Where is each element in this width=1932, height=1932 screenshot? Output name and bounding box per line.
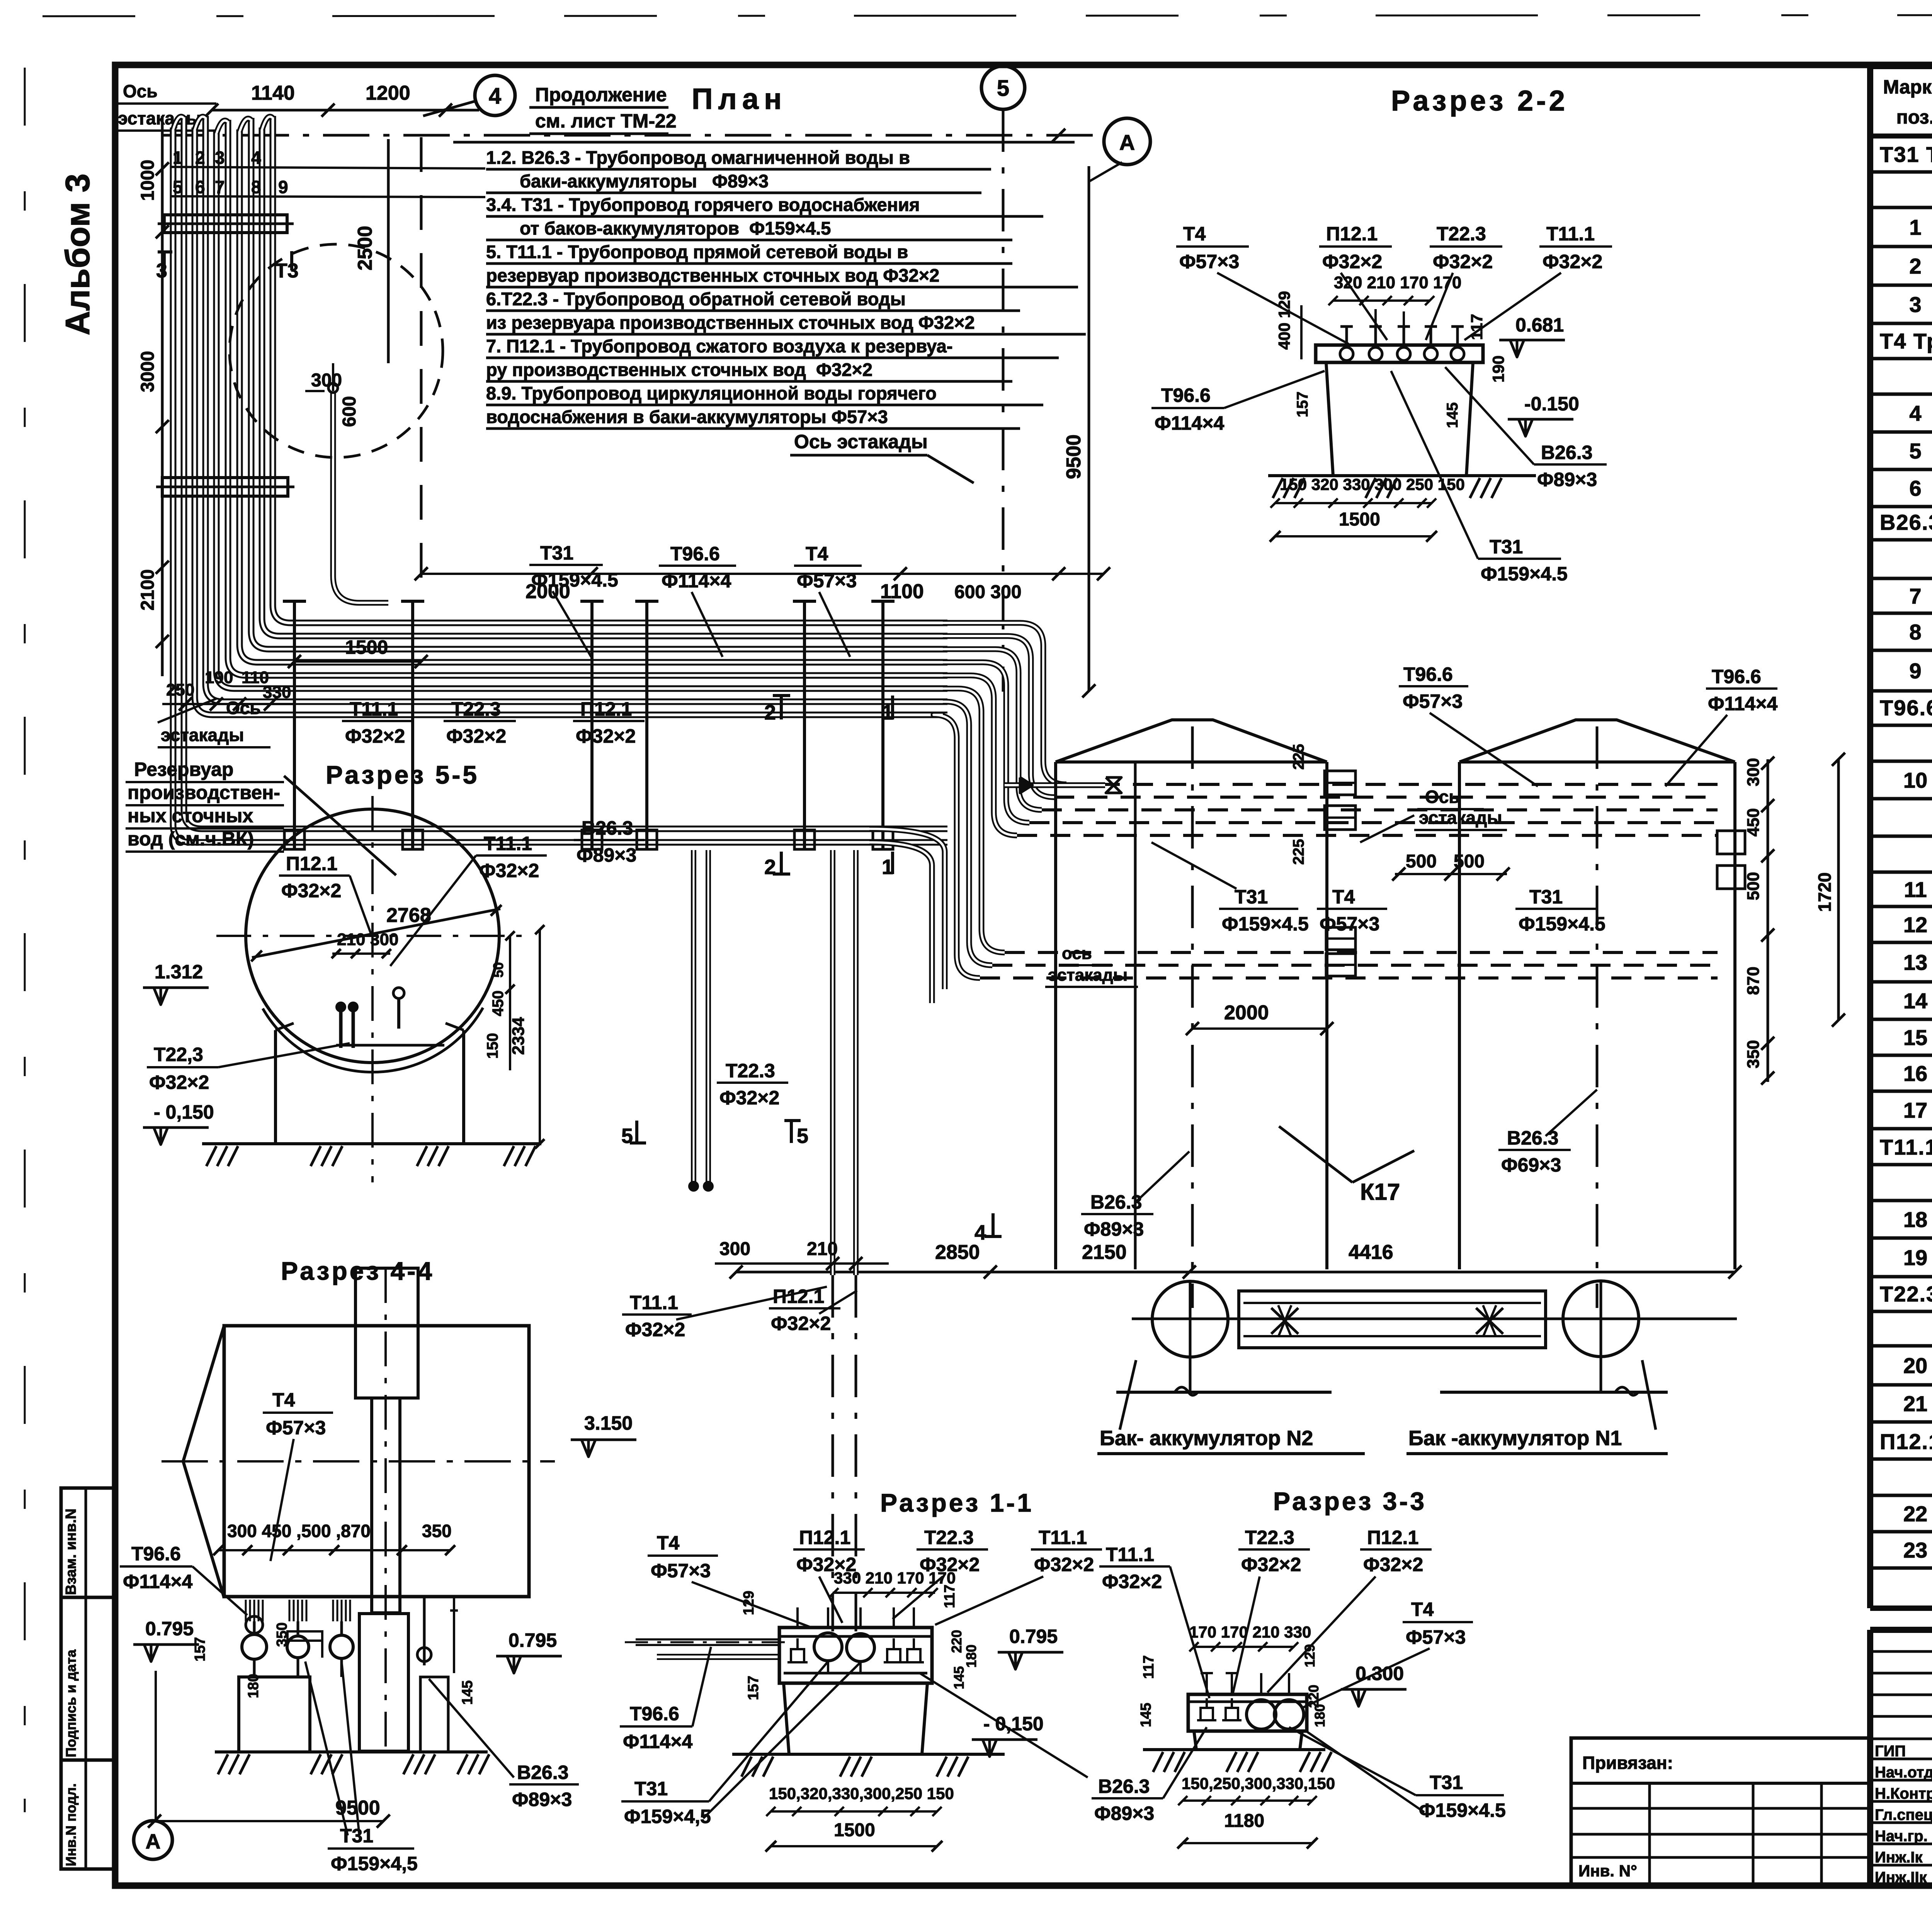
svg-text:2334: 2334 xyxy=(509,1017,528,1055)
svg-text:Т31: Т31 xyxy=(1430,1772,1463,1793)
svg-text:Ф32×2: Ф32×2 xyxy=(1322,251,1382,272)
svg-text:А: А xyxy=(146,1830,161,1853)
node circle 5 xyxy=(981,66,1025,109)
svg-text:225: 225 xyxy=(1290,839,1307,865)
svg-text:Т11.1: Т11.1 xyxy=(484,833,532,854)
svg-text:П12.1: П12.1 xyxy=(773,1286,824,1307)
svg-text:0.300: 0.300 xyxy=(1355,1663,1404,1684)
svg-text:Привязан:: Привязан: xyxy=(1582,1753,1673,1773)
section 5-5 right dims xyxy=(509,936,511,1070)
svg-text:ру производственных сточных во: ру производственных сточных вод Ф32×2 xyxy=(486,359,872,380)
svg-text:Ф89×3: Ф89×3 xyxy=(1094,1803,1154,1824)
svg-text:Инв. N°: Инв. N° xyxy=(1578,1862,1637,1880)
svg-text:из резервуара производственных: из резервуара производственных сточных в… xyxy=(486,312,975,333)
svg-text:1: 1 xyxy=(173,148,183,168)
svg-text:2768: 2768 xyxy=(386,904,431,927)
spec table outer xyxy=(1870,62,1932,69)
axis dashed vertical xyxy=(420,137,423,587)
section 5-5 pier xyxy=(274,1030,277,1144)
svg-text:Т96.6: Т96.6 xyxy=(131,1543,181,1565)
svg-text:150,320,330,300,250 150: 150,320,330,300,250 150 xyxy=(769,1784,954,1803)
svg-text:Т31: Т31 xyxy=(1235,886,1268,908)
svg-text:Ф89×3: Ф89×3 xyxy=(1537,469,1597,490)
svg-text:19: 19 xyxy=(1903,1245,1927,1270)
sheet top edge xyxy=(43,15,1932,16)
section 1-1 feed pipe xyxy=(636,1638,781,1646)
svg-text:Ф32×2: Ф32×2 xyxy=(1241,1554,1301,1575)
svg-text:2850: 2850 xyxy=(935,1241,980,1264)
svg-text:2100: 2100 xyxy=(138,569,158,611)
flange stack between tanks xyxy=(1325,771,1355,795)
svg-text:Ф57×3: Ф57×3 xyxy=(1406,1626,1466,1648)
svg-text:150,250,300,330,150: 150,250,300,330,150 xyxy=(1182,1774,1335,1793)
svg-text:Ф69×3: Ф69×3 xyxy=(1501,1154,1561,1176)
svg-text:Резервуар: Резервуар xyxy=(134,759,233,780)
svg-text:5: 5 xyxy=(997,76,1009,101)
svg-text:П12.1: П12.1 xyxy=(1367,1527,1418,1548)
svg-text:11: 11 xyxy=(1904,878,1927,902)
svg-text:Разрез 4-4: Разрез 4-4 xyxy=(281,1257,434,1285)
flange stack tank 1 side xyxy=(1717,831,1745,854)
svg-text:180: 180 xyxy=(1312,1704,1328,1727)
svg-text:Т96.6: Т96.6 xyxy=(1161,384,1211,406)
section 3-3 pier xyxy=(1188,1694,1307,1731)
dimension 1720 xyxy=(1837,759,1840,1020)
svg-text:Т11.1: Т11.1 xyxy=(1546,223,1595,245)
svg-text:Т22.3: Т22.3 xyxy=(451,698,501,720)
transition bends to tank runs xyxy=(943,623,1066,784)
riser pipe with dimension 300 xyxy=(333,391,388,603)
svg-text:14: 14 xyxy=(1903,989,1927,1013)
svg-text:Т4: Т4 xyxy=(1183,223,1206,245)
svg-text:Ф32×2: Ф32×2 xyxy=(1433,251,1493,272)
svg-text:Ф32×2: Ф32×2 xyxy=(446,725,506,747)
tank foundation circles xyxy=(1152,1281,1228,1357)
svg-text:180: 180 xyxy=(245,1674,262,1698)
section 5-5 tank circle xyxy=(246,809,499,1063)
svg-text:4416: 4416 xyxy=(1349,1241,1393,1264)
valve on feed pipe xyxy=(1005,782,1105,788)
svg-text:Ф32×2: Ф32×2 xyxy=(149,1071,209,1093)
svg-text:21: 21 xyxy=(1903,1391,1927,1416)
svg-text:4: 4 xyxy=(1909,401,1921,425)
svg-text:Т11.1: Т11.1 xyxy=(350,698,398,720)
svg-text:Ф57×3: Ф57×3 xyxy=(1179,251,1239,272)
svg-text:22: 22 xyxy=(1903,1502,1927,1526)
svg-text:5: 5 xyxy=(797,1124,808,1148)
svg-text:Подпись и дата: Подпись и дата xyxy=(63,1649,79,1757)
svg-text:157: 157 xyxy=(192,1637,208,1662)
svg-text:5: 5 xyxy=(1909,439,1921,463)
svg-text:П12.1: П12.1 xyxy=(799,1527,850,1548)
svg-text:157: 157 xyxy=(1294,391,1311,417)
svg-text:157: 157 xyxy=(745,1676,762,1700)
svg-text:Бак- аккумулятор N2: Бак- аккумулятор N2 xyxy=(1100,1427,1313,1450)
svg-text:Ф89×3: Ф89×3 xyxy=(577,844,636,866)
svg-text:180: 180 xyxy=(963,1645,979,1668)
section 5-5 bottom pipes xyxy=(339,1010,343,1048)
section 1-1 pier xyxy=(779,1628,932,1683)
svg-text:1200: 1200 xyxy=(366,82,410,104)
svg-text:эстакады: эстакады xyxy=(118,108,201,128)
svg-text:7. П12.1 - Трубопровод сжатого: 7. П12.1 - Трубопровод сжатого воздуха к… xyxy=(486,336,952,356)
svg-text:Т4: Т4 xyxy=(1332,886,1355,908)
svg-text:вод (см.ч.ВК): вод (см.ч.ВК) xyxy=(128,828,254,850)
svg-text:Бак -аккумулятор N1: Бак -аккумулятор N1 xyxy=(1408,1427,1622,1450)
svg-text:В26.3: В26.3 xyxy=(1098,1776,1150,1797)
svg-text:Взам. инв.N: Взам. инв.N xyxy=(63,1509,79,1595)
svg-text:350: 350 xyxy=(1744,1040,1763,1068)
svg-text:Т22.3 Трубопровод обратной сет: Т22.3 Трубопровод обратной сетевой воды … xyxy=(1880,1282,1932,1306)
svg-text:Ф114×4: Ф114×4 xyxy=(662,570,731,592)
svg-text:ось: ось xyxy=(1062,944,1092,963)
svg-text:Ф32×2: Ф32×2 xyxy=(1543,251,1602,272)
svg-text:Ф32×2: Ф32×2 xyxy=(1363,1554,1423,1575)
svg-text:ных сточных: ных сточных xyxy=(128,805,253,827)
svg-text:Т96.6: Т96.6 xyxy=(1403,663,1453,685)
section 1-1 leader B26.3 xyxy=(920,1673,1088,1777)
svg-text:Разрез 2-2: Разрез 2-2 xyxy=(1391,85,1568,117)
svg-text:600: 600 xyxy=(339,396,360,427)
svg-text:Ф57×3: Ф57×3 xyxy=(266,1417,326,1439)
svg-text:117: 117 xyxy=(1468,314,1486,340)
svg-text:320 210 170 170: 320 210 170 170 xyxy=(1334,273,1461,292)
dimension 2000 plan xyxy=(421,573,591,575)
svg-text:300: 300 xyxy=(311,370,342,391)
svg-text:см. лист ТМ-22: см. лист ТМ-22 xyxy=(535,110,677,132)
pipe notes list xyxy=(453,141,1075,144)
svg-text:План: План xyxy=(692,83,787,116)
left dimension chain xyxy=(161,116,164,676)
svg-text:Т4: Т4 xyxy=(657,1532,680,1554)
svg-text:8.9. Трубопровод циркуляционно: 8.9. Трубопровод циркуляционной воды гор… xyxy=(486,383,937,403)
svg-text:Нач.гр.: Нач.гр. xyxy=(1875,1828,1928,1845)
svg-text:Т4 Трубопровод циркуляционного: Т4 Трубопровод циркуляционного горячего … xyxy=(1880,329,1932,353)
svg-text:145: 145 xyxy=(951,1666,967,1689)
svg-text:210: 210 xyxy=(337,930,365,949)
svg-text:Т11.1: Т11.1 xyxy=(1106,1544,1154,1565)
foundation ground lines xyxy=(1116,1391,1332,1394)
svg-text:170 170 210 330: 170 170 210 330 xyxy=(1189,1623,1311,1641)
svg-text:Ф32×2: Ф32×2 xyxy=(771,1313,831,1334)
svg-text:2: 2 xyxy=(1909,254,1921,278)
svg-text:Ф89×3: Ф89×3 xyxy=(512,1789,572,1810)
svg-text:400 129: 400 129 xyxy=(1275,291,1293,350)
svg-text:450: 450 xyxy=(490,990,507,1016)
svg-text:Т4: Т4 xyxy=(1411,1599,1434,1620)
pipes down to section 1-1 xyxy=(830,850,835,1275)
left margin stamps xyxy=(61,1488,114,1869)
svg-text:Ф32×2: Ф32×2 xyxy=(479,860,539,881)
svg-text:Ф32×2: Ф32×2 xyxy=(1102,1571,1162,1592)
svg-text:Т11.1 Трубопровод прямой сетев: Т11.1 Трубопровод прямой сетевой воды к … xyxy=(1880,1135,1932,1159)
svg-text:2: 2 xyxy=(764,701,776,724)
svg-text:Разрез 5-5: Разрез 5-5 xyxy=(326,760,479,789)
svg-text:П12.1: П12.1 xyxy=(1326,223,1378,245)
sheet left edge xyxy=(24,68,26,1812)
svg-text:Альбом 3: Альбом 3 xyxy=(58,173,97,335)
section 4-4 tank xyxy=(224,1326,529,1597)
svg-text:Инж.Iк: Инж.Iк xyxy=(1875,1849,1923,1866)
section 4-4 column xyxy=(355,1268,418,1398)
node circle A bottom xyxy=(134,1821,172,1859)
svg-text:145: 145 xyxy=(1444,402,1461,428)
svg-text:1180: 1180 xyxy=(1224,1811,1264,1831)
svg-text:500: 500 xyxy=(1454,851,1485,872)
svg-text:9: 9 xyxy=(278,177,288,197)
svg-text:Ось эстакады: Ось эстакады xyxy=(794,431,928,452)
svg-text:от баков-аккумуляторов Ф159×4: от баков-аккумуляторов Ф159×4.5 xyxy=(520,218,831,238)
dimension row bottom tanks xyxy=(736,1271,1735,1274)
svg-text:190: 190 xyxy=(205,668,233,687)
svg-text:145: 145 xyxy=(1138,1703,1154,1727)
title block xyxy=(1870,1627,1932,1633)
svg-text:В26.3: В26.3 xyxy=(1090,1191,1142,1213)
foundation axis xyxy=(1132,1318,1737,1320)
svg-text:Ф57×3: Ф57×3 xyxy=(797,570,857,592)
svg-text:300: 300 xyxy=(1744,758,1763,786)
svg-text:В26.3: В26.3 xyxy=(582,817,633,839)
svg-text:Т22.3: Т22.3 xyxy=(1437,223,1486,245)
svg-text:Т22,3: Т22,3 xyxy=(154,1044,203,1065)
svg-text:Ф32×2: Ф32×2 xyxy=(1034,1554,1094,1575)
svg-text:1720: 1720 xyxy=(1815,872,1835,912)
svg-text:эстакады: эстакады xyxy=(161,725,244,745)
svg-text:Ф32×2: Ф32×2 xyxy=(281,880,341,901)
reservoir dashed circle plan xyxy=(230,244,443,457)
svg-text:1.312: 1.312 xyxy=(155,961,203,983)
svg-text:7: 7 xyxy=(215,177,225,197)
right dimension chain tanks xyxy=(1767,759,1769,1082)
pipe rack crossbar upper xyxy=(164,215,287,233)
svg-text:резервуар производственных сто: резервуар производственных сточных вод Ф… xyxy=(486,265,939,286)
svg-text:117: 117 xyxy=(1141,1655,1157,1679)
svg-text:50: 50 xyxy=(490,962,506,978)
spec table section headers xyxy=(1870,170,1932,174)
svg-text:9: 9 xyxy=(1909,659,1921,683)
svg-text:150 320 330 300 250 150: 150 320 330 300 250 150 xyxy=(1280,475,1465,493)
svg-text:Т96.6 Трубопровод сливной от б: Т96.6 Трубопровод сливной от баков-аккум… xyxy=(1880,696,1932,720)
svg-text:Ф159×4,5: Ф159×4,5 xyxy=(331,1853,418,1874)
lower pipe pair xyxy=(869,829,945,989)
svg-text:Ось: Ось xyxy=(123,81,158,101)
svg-text:Т96.6: Т96.6 xyxy=(1712,666,1761,687)
svg-text:К17: К17 xyxy=(1360,1179,1400,1205)
svg-text:15: 15 xyxy=(1903,1026,1927,1050)
svg-text:эстакады: эстакады xyxy=(1048,966,1128,985)
svg-text:3: 3 xyxy=(215,148,225,168)
svg-text:Продолжение: Продолжение xyxy=(535,84,667,105)
svg-text:эстакады: эстакады xyxy=(1419,808,1502,828)
svg-text:Т96.6: Т96.6 xyxy=(630,1703,679,1725)
svg-text:Т22.3: Т22.3 xyxy=(924,1527,974,1548)
svg-text:1100: 1100 xyxy=(880,580,924,603)
svg-text:Инж.IIк: Инж.IIк xyxy=(1875,1869,1927,1886)
svg-text:300: 300 xyxy=(719,1239,750,1259)
svg-text:6: 6 xyxy=(195,177,205,197)
svg-text:Т11.1: Т11.1 xyxy=(630,1292,678,1313)
svg-text:3: 3 xyxy=(1909,293,1921,317)
svg-text:225: 225 xyxy=(1290,744,1307,770)
svg-text:Ф32×2: Ф32×2 xyxy=(345,725,405,747)
svg-text:Ф159×4.5: Ф159×4.5 xyxy=(1222,913,1309,935)
svg-text:16: 16 xyxy=(1903,1061,1927,1086)
svg-text:7: 7 xyxy=(1909,584,1921,608)
svg-text:В26.3 Трубопровод омагниченной: В26.3 Трубопровод омагниченной воды от б… xyxy=(1880,510,1932,534)
svg-text:0.795: 0.795 xyxy=(509,1629,557,1651)
svg-text:Ф32×2: Ф32×2 xyxy=(625,1319,685,1340)
svg-text:129: 129 xyxy=(741,1591,757,1615)
svg-text:2000: 2000 xyxy=(1224,1002,1269,1024)
svg-text:350: 350 xyxy=(422,1521,452,1541)
svg-text:3.4. Т31 - Трубопровод горячег: 3.4. Т31 - Трубопровод горячего водоснаб… xyxy=(486,194,920,215)
svg-text:Т4: Т4 xyxy=(272,1389,295,1411)
svg-text:Разрез 3-3: Разрез 3-3 xyxy=(1273,1487,1427,1515)
svg-text:Ф114×4: Ф114×4 xyxy=(1155,412,1225,434)
svg-text:Ф57×3: Ф57×3 xyxy=(651,1560,711,1582)
svg-text:Инв.N подл.: Инв.N подл. xyxy=(63,1783,79,1866)
svg-text:В26.3: В26.3 xyxy=(1541,442,1592,463)
svg-text:10: 10 xyxy=(1903,768,1927,793)
svg-text:190: 190 xyxy=(1489,355,1507,383)
svg-text:300: 300 xyxy=(370,930,398,949)
section 1-1 pipe symbols xyxy=(814,1633,842,1661)
svg-text:12: 12 xyxy=(1903,913,1927,937)
section 4-4 valves xyxy=(245,1600,247,1621)
svg-text:23: 23 xyxy=(1903,1538,1927,1562)
svg-text:330 210 170 170: 330 210 170 170 xyxy=(834,1569,956,1587)
svg-text:Ф114×4: Ф114×4 xyxy=(1708,693,1778,714)
svg-text:129: 129 xyxy=(1302,1644,1318,1667)
svg-text:производствен-: производствен- xyxy=(128,782,280,803)
svg-text:250: 250 xyxy=(166,680,194,699)
svg-text:870: 870 xyxy=(1744,967,1763,995)
svg-text:Ф32×2: Ф32×2 xyxy=(719,1087,779,1109)
svg-text:450: 450 xyxy=(1744,808,1763,837)
svg-text:1500: 1500 xyxy=(1339,509,1380,530)
svg-text:Ф159×4,5: Ф159×4,5 xyxy=(624,1806,711,1827)
svg-text:13: 13 xyxy=(1903,950,1927,975)
svg-text:150: 150 xyxy=(484,1033,501,1059)
svg-text:водоснабжения в баки-аккумулят: водоснабжения в баки-аккумуляторы Ф57×3 xyxy=(486,406,888,427)
svg-text:Т4: Т4 xyxy=(806,543,828,565)
svg-text:350: 350 xyxy=(274,1622,290,1647)
svg-text:поз.: поз. xyxy=(1896,106,1932,128)
tank 2 axis xyxy=(1191,726,1194,1308)
svg-text:Т3: Т3 xyxy=(275,260,299,282)
svg-text:Ф57×3: Ф57×3 xyxy=(1320,913,1379,935)
hatched pads xyxy=(1271,1308,1298,1334)
vertical pipe bundle xyxy=(173,128,947,842)
svg-text:баки-аккумуляторы Ф89×3: баки-аккумуляторы Ф89×3 xyxy=(520,171,769,191)
svg-text:8: 8 xyxy=(251,177,261,197)
svg-text:1.2. В26.3 - Трубопровод омагн: 1.2. В26.3 - Трубопровод омагниченной во… xyxy=(486,147,910,168)
svg-text:Ф159×4.5: Ф159×4.5 xyxy=(1519,913,1605,935)
svg-text:Н.Контр.: Н.Контр. xyxy=(1875,1785,1932,1802)
svg-text:-0.150: -0.150 xyxy=(1524,393,1579,415)
section 2-2 dim 9500 xyxy=(1088,166,1090,691)
svg-text:Ось: Ось xyxy=(1425,787,1460,807)
svg-text:4: 4 xyxy=(251,148,261,168)
svg-text:- 0,150: - 0,150 xyxy=(154,1101,214,1123)
pipes down to reservoir xyxy=(691,850,696,1182)
svg-text:300 450 ,500 ,870: 300 450 ,500 ,870 xyxy=(227,1521,371,1541)
svg-text:5: 5 xyxy=(173,177,183,197)
svg-text:2150: 2150 xyxy=(1082,1241,1127,1264)
svg-text:1: 1 xyxy=(1909,215,1921,240)
svg-text:Ф159×4.5: Ф159×4.5 xyxy=(1481,563,1568,585)
svg-text:5. Т11.1 - Трубопровод прямой: 5. Т11.1 - Трубопровод прямой сетевой во… xyxy=(486,241,908,262)
binding box xyxy=(1571,1738,1870,1884)
svg-text:Т31: Т31 xyxy=(634,1778,668,1799)
svg-text:1500: 1500 xyxy=(345,636,388,658)
svg-text:500: 500 xyxy=(1406,851,1437,872)
svg-text:Т31: Т31 xyxy=(1529,886,1563,908)
section 4-4 pedestals xyxy=(239,1677,310,1752)
svg-text:1140: 1140 xyxy=(251,82,295,104)
svg-text:145: 145 xyxy=(459,1680,476,1705)
section 3-3 pipe symbols xyxy=(1201,1708,1213,1720)
pipe rack crossbar lower xyxy=(162,478,288,496)
svg-text:0.681: 0.681 xyxy=(1515,314,1564,336)
svg-text:3.150: 3.150 xyxy=(584,1412,633,1434)
horizontal bundle supports xyxy=(293,601,296,850)
svg-text:1000: 1000 xyxy=(138,160,158,201)
section 5-5 dim 2768 xyxy=(252,909,500,957)
svg-text:17: 17 xyxy=(1903,1098,1927,1122)
svg-text:8: 8 xyxy=(1909,620,1921,644)
svg-text:Т31: Т31 xyxy=(1490,536,1523,558)
svg-text:Т31: Т31 xyxy=(540,542,573,564)
svg-text:Т22.3: Т22.3 xyxy=(1245,1527,1294,1548)
svg-text:В26.3: В26.3 xyxy=(517,1762,568,1783)
tank 2 plan outline xyxy=(1054,762,1057,1269)
section 2-2 pipe symbols xyxy=(1340,347,1353,361)
svg-text:600 300: 600 300 xyxy=(954,582,1022,602)
svg-text:Ф114×4: Ф114×4 xyxy=(123,1571,193,1592)
tank 1 plan outline xyxy=(1458,762,1461,1269)
section 5-5 axes xyxy=(216,935,529,937)
svg-text:210: 210 xyxy=(807,1239,838,1259)
svg-text:6.Т22.3 - Трубопровод обратной: 6.Т22.3 - Трубопровод обратной сетевой в… xyxy=(486,289,906,309)
svg-text:2: 2 xyxy=(195,148,205,168)
svg-text:500: 500 xyxy=(1744,872,1763,900)
svg-text:220: 220 xyxy=(949,1630,964,1653)
svg-text:Ф159×4.5: Ф159×4.5 xyxy=(1419,1799,1506,1821)
svg-text:117: 117 xyxy=(942,1585,958,1608)
svg-text:П12.1 Трубопровод сжатого возд: П12.1 Трубопровод сжатого воздуха к резе… xyxy=(1880,1429,1932,1454)
node circle A xyxy=(1104,118,1150,165)
svg-text:П12.1: П12.1 xyxy=(580,698,632,720)
svg-text:Т96.6: Т96.6 xyxy=(670,543,720,565)
drain label K17 xyxy=(1279,1126,1352,1182)
section 1-1 stems above beam xyxy=(796,1607,799,1628)
svg-text:Гл.спец.: Гл.спец. xyxy=(1875,1806,1932,1823)
axis dash-dot horizontal xyxy=(162,134,1104,137)
svg-text:0.795: 0.795 xyxy=(145,1618,194,1639)
svg-text:4: 4 xyxy=(975,1221,986,1244)
svg-text:18: 18 xyxy=(1903,1207,1927,1232)
section 2-2 pier xyxy=(1316,345,1483,362)
svg-text:4: 4 xyxy=(489,83,501,109)
spec table item rows xyxy=(1870,245,1932,248)
svg-text:1500: 1500 xyxy=(834,1820,875,1840)
svg-text:20: 20 xyxy=(1903,1354,1927,1378)
svg-text:9500: 9500 xyxy=(1063,434,1085,479)
tank 1 axis xyxy=(1596,726,1599,1308)
pipe position tags xyxy=(170,167,485,168)
svg-text:Ф114×4: Ф114×4 xyxy=(623,1731,693,1752)
